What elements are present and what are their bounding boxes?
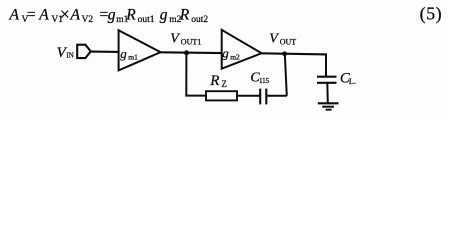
svg-text:115: 115 (259, 76, 270, 85)
svg-text:g: g (108, 7, 116, 24)
svg-text:g: g (120, 46, 127, 61)
svg-text:=: = (27, 7, 36, 24)
wire CM to VOUT feedback right (266, 95, 287, 97)
node VOUT (282, 51, 287, 56)
wire VIN to gm1 (91, 51, 119, 53)
label gm1 (120, 46, 138, 62)
equation Av=Av1×Av2=gm1Rout1gm2Rout2 (9, 4, 209, 25)
svg-text:R: R (125, 7, 136, 24)
input terminal VIN (77, 45, 91, 58)
svg-text:A: A (70, 7, 81, 24)
node VOUT1 (184, 50, 189, 55)
svg-text:OUT: OUT (280, 38, 297, 47)
svg-text:A: A (38, 7, 49, 24)
svg-text:Z: Z (221, 79, 227, 89)
op-amp U2 gm2 (222, 30, 262, 69)
svg-text:V2: V2 (82, 15, 94, 25)
wire RZ to CM (237, 95, 260, 97)
svg-text:out1: out1 (138, 15, 155, 25)
capacitor CL (317, 77, 337, 83)
wire CL to ground (326, 83, 329, 103)
svg-text:R: R (209, 73, 219, 89)
wire feedback right vertical (285, 54, 287, 96)
svg-text:L.: L. (349, 76, 356, 86)
op-amp U1 gm1 (119, 30, 161, 70)
svg-text:A: A (9, 7, 20, 24)
svg-text:out2: out2 (191, 15, 208, 25)
svg-text:IN: IN (66, 52, 73, 60)
svg-text:m2: m2 (230, 52, 240, 61)
svg-text:g: g (222, 46, 229, 61)
label CL (340, 71, 356, 87)
label VOUT (269, 31, 296, 46)
resistor RZ (206, 91, 237, 100)
wire gm1 to gm2 (161, 51, 223, 54)
label VOUT1 (170, 31, 201, 46)
svg-text:m1: m1 (128, 53, 138, 62)
svg-text:(5): (5) (420, 4, 443, 25)
wire output corner down to CL (325, 54, 327, 77)
svg-text:×: × (60, 4, 70, 24)
wire feedback to RZ (185, 95, 206, 97)
wire VOUT1 down feedback left (185, 53, 187, 97)
label gm2 (222, 46, 240, 62)
wire gm2 to output corner (262, 53, 327, 54)
label CM (250, 70, 269, 85)
svg-text:V: V (170, 31, 180, 46)
ground (318, 103, 339, 109)
svg-text:V: V (269, 31, 279, 46)
svg-text:R: R (179, 7, 190, 24)
label RZ (209, 73, 227, 89)
svg-text:OUT1: OUT1 (181, 38, 201, 47)
capacitor CM (260, 89, 266, 105)
svg-text:g: g (160, 7, 168, 24)
node VIN label (57, 45, 74, 61)
